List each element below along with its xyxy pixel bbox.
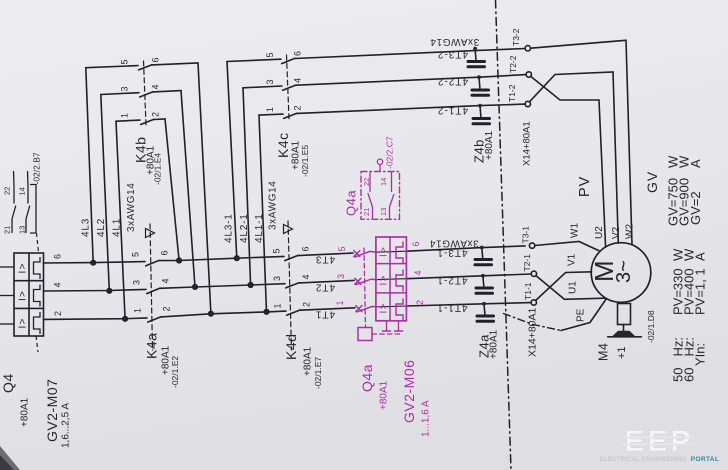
svg-text:4L1-1: 4L1-1 (254, 213, 265, 243)
svg-text:60: 60 (682, 368, 697, 382)
wire bus 4L2 (middle phase) (44, 289, 147, 291)
svg-text:5: 5 (130, 252, 140, 257)
svg-text:6: 6 (52, 254, 62, 259)
svg-text:+80A1: +80A1 (303, 346, 314, 376)
svg-text:3~: 3~ (613, 260, 635, 283)
svg-text:4: 4 (413, 270, 423, 275)
breaker Q4a thermal elements (396, 242, 403, 263)
svg-text:GV=2: GV=2 (688, 191, 703, 225)
wire tap bus1 to K4b row1 (86, 68, 93, 263)
svg-text:Q4a: Q4a (359, 364, 375, 392)
svg-text:6: 6 (292, 51, 302, 56)
svg-text:3: 3 (265, 79, 275, 84)
svg-text:-02/2.C7: -02/2.C7 (385, 136, 395, 169)
svg-text:4: 4 (292, 78, 302, 83)
svg-text:4T1-1: 4T1-1 (436, 302, 467, 313)
svg-text:1,6...2,5 A: 1,6...2,5 A (61, 403, 72, 448)
svg-text:4T2-2: 4T2-2 (437, 76, 468, 87)
svg-text:22: 22 (3, 187, 12, 195)
svg-text:K4c: K4c (275, 132, 291, 158)
svg-text:-02/1.D8: -02/1.D8 (646, 310, 656, 343)
svg-text:U2: U2 (594, 226, 605, 239)
contactor K4b contact slants (139, 65, 152, 70)
wire K4c row 3-4 / 4T2-2 (243, 86, 282, 88)
wire tap bus3 to K4b row3 (116, 121, 125, 319)
aux bracket Q4 (30, 185, 36, 234)
svg-text:T2-1: T2-1 (522, 254, 532, 272)
svg-text:I>: I> (18, 262, 29, 273)
svg-text:+80A1: +80A1 (20, 397, 31, 427)
terminal circle X14 T2-2 (526, 72, 531, 77)
svg-text:W1: W1 (570, 223, 581, 238)
wire K4c row 1-2 / 4T1-2 (259, 114, 283, 115)
wire T1-1 to motor V1 (crossover) (536, 272, 592, 301)
svg-text:6: 6 (150, 57, 160, 62)
wire K4b row3 down to bus1 (phase swap) (165, 119, 179, 261)
svg-text:6: 6 (300, 246, 310, 251)
svg-text:V2: V2 (611, 226, 622, 239)
svg-text:2: 2 (53, 311, 63, 316)
wire PE dash-dot rail (504, 314, 562, 331)
svg-text:GV2-M07: GV2-M07 (44, 379, 60, 442)
svg-text:-02/1.E2: -02/1.E2 (170, 356, 180, 388)
svg-text:T1-2: T1-2 (507, 84, 517, 102)
bottom-left corner shadow (0, 446, 20, 470)
svg-text:M4: M4 (597, 343, 611, 361)
wire K4b row2 down to bus2 (181, 91, 195, 287)
aux contact Q4a 13-14 (389, 207, 391, 219)
wire tap bus2 to K4b row2 (101, 95, 110, 291)
svg-text:4T2-1: 4T2-1 (436, 275, 467, 286)
wire K4b row 1-2 (116, 120, 140, 121)
svg-text:GV2-M06: GV2-M06 (401, 360, 417, 423)
svg-text:5: 5 (337, 246, 347, 251)
svg-text:4T1-2: 4T1-2 (437, 105, 468, 116)
terminal Z4b pole 4T1-2 (479, 106, 482, 117)
svg-text:U1: U1 (568, 281, 579, 294)
svg-text:PV: PV (577, 176, 593, 197)
wire K4b row1 down to bus3 (phase swap) (198, 63, 211, 314)
svg-text:I>: I> (18, 290, 29, 301)
wire T3-1 to motor W1 (535, 242, 599, 251)
svg-text:3xAWG14: 3xAWG14 (268, 181, 279, 230)
svg-text:+80A1: +80A1 (379, 380, 390, 410)
wire T1-2 to motor V2 (crossover) (530, 72, 619, 243)
svg-text:3: 3 (131, 280, 141, 285)
svg-text:4T3-1: 4T3-1 (436, 247, 467, 258)
svg-text:3: 3 (119, 86, 129, 91)
svg-text:13: 13 (18, 226, 27, 234)
svg-text:X14+80A1: X14+80A1 (526, 308, 538, 357)
svg-text:1...1,6 A: 1...1,6 A (421, 400, 432, 437)
contactor K4c contact slants (282, 58, 295, 63)
svg-text:4: 4 (301, 274, 311, 279)
motor M4 circle (591, 243, 651, 303)
wire T2-1 to motor U1 (crossover) (536, 276, 605, 300)
svg-text:3xAWG14: 3xAWG14 (430, 36, 479, 47)
svg-text:Q4: Q4 (0, 373, 16, 393)
svg-text:GV: GV (644, 171, 660, 193)
svg-text:K4d: K4d (283, 334, 299, 360)
svg-text:2: 2 (292, 105, 302, 110)
svg-text:T3-2: T3-2 (511, 28, 521, 46)
svg-text:-02/2.B7: -02/2.B7 (32, 152, 42, 184)
svg-text:4L3: 4L3 (81, 218, 92, 237)
aux contact Q4a 21-22 (372, 207, 374, 219)
svg-text:Q4a: Q4a (344, 190, 359, 216)
aux contact Q4 21-22 (11, 219, 13, 233)
svg-text:W2: W2 (625, 224, 636, 239)
svg-text:14: 14 (379, 178, 388, 186)
svg-text:3: 3 (272, 276, 282, 281)
breaker Q4 mechanism link down (36, 336, 38, 352)
svg-text:21: 21 (362, 208, 371, 216)
svg-text:5: 5 (271, 248, 281, 253)
linkage K4c (287, 55, 290, 119)
breaker Q4 body (14, 253, 44, 336)
junction dots K4c taps (235, 256, 240, 261)
svg-text:4T3-2: 4T3-2 (437, 49, 468, 60)
svg-text:2: 2 (415, 300, 425, 305)
svg-text:PE: PE (576, 308, 587, 322)
EEP watermark logo (600, 425, 720, 463)
svg-text:3: 3 (336, 274, 346, 279)
svg-text:4L2-1: 4L2-1 (239, 213, 250, 243)
breaker Q4a contact slant pole 5-6 (355, 251, 376, 257)
motor brake stem (623, 325, 625, 332)
arrow on K4d linkage (284, 225, 293, 234)
wire T3-2 to motor W2 (531, 40, 633, 244)
contactor K4d contact slants (285, 255, 298, 260)
terminal circle X14 T1-1 (531, 300, 536, 305)
svg-text:3xAWG14: 3xAWG14 (429, 238, 478, 249)
svg-text:+80A1: +80A1 (489, 329, 500, 359)
svg-text:V1: V1 (567, 253, 578, 266)
linkage K4b (144, 61, 147, 125)
svg-text:ELECTRICAL ENGINEERING: ELECTRICAL ENGINEERING (600, 456, 687, 463)
breaker Q4a mechanism box (358, 328, 372, 341)
terminal circle X14 T3-2 (525, 46, 530, 51)
svg-text:-02/1.E5: -02/1.E5 (300, 145, 310, 177)
wire tap bus1 to K4c row1 (227, 62, 237, 259)
wire K4c row 5-6 / 4T3-2 (227, 59, 281, 61)
svg-text:1: 1 (272, 303, 282, 308)
wire PE to motor (561, 299, 607, 331)
wire K4b row 3-4 (101, 93, 139, 95)
svg-text:6: 6 (411, 241, 421, 246)
terminal Z4a pole 4T1-1 (483, 304, 486, 315)
aux box Q4a dash-dot frame (361, 172, 400, 220)
svg-text:+1: +1 (616, 346, 628, 359)
svg-text:21: 21 (3, 226, 12, 234)
svg-text:3xAWG14: 3xAWG14 (126, 183, 137, 232)
svg-text:1: 1 (132, 308, 142, 313)
svg-text:-02/1.E7: -02/1.E7 (313, 357, 323, 389)
linkage Q4a dashed (364, 248, 366, 328)
terminal Z4a pole 4T3-1 (481, 248, 484, 259)
terminal circle X14 T1-2 (525, 101, 530, 106)
svg-text:-02/1.E4: -02/1.E4 (153, 153, 163, 185)
junction dots K4b outputs (177, 258, 182, 263)
svg-text:YIn:: YIn: (693, 343, 708, 366)
breaker Q4a contact slant pole 3-4 (356, 279, 377, 284)
contactor K4a contact slants (146, 260, 159, 266)
svg-text:I>: I> (379, 246, 390, 257)
svg-text:5: 5 (119, 59, 129, 64)
svg-text:A: A (688, 159, 703, 168)
breaker Q4 thermal elements (34, 257, 41, 279)
svg-text:5: 5 (265, 52, 275, 57)
linkage K4d (288, 221, 292, 350)
aux contact Q4 13-14 (25, 219, 27, 233)
boundary dash-dot line (496, 0, 512, 470)
terminal Z4a pole 4T2-1 (482, 276, 485, 287)
svg-text:14: 14 (18, 187, 27, 195)
svg-text:PV=1, 1: PV=1, 1 (693, 268, 708, 315)
motor brake pad (608, 336, 642, 338)
svg-text:4T1: 4T1 (315, 309, 335, 320)
svg-text:22: 22 (362, 178, 371, 186)
svg-text:4T2: 4T2 (315, 282, 335, 293)
svg-text:13: 13 (379, 208, 388, 216)
svg-text:I>: I> (379, 274, 390, 285)
motor brake body (618, 304, 631, 325)
svg-text:4L2: 4L2 (96, 218, 107, 237)
terminal Z4b pole 4T2-2 (478, 77, 481, 88)
svg-text:1: 1 (119, 113, 129, 118)
terminal Z4b pole 4T3-2 (474, 49, 477, 60)
svg-text:X14+80A1: X14+80A1 (521, 121, 532, 166)
svg-text:1: 1 (335, 300, 345, 305)
svg-text:2: 2 (161, 306, 171, 311)
wire T2-2 to motor U2 (crossover) (531, 76, 606, 247)
svg-text:2: 2 (301, 302, 311, 307)
wire K4b row 5-6 (upper) (86, 66, 138, 68)
svg-text:I>: I> (18, 317, 29, 328)
svg-text:T3-1: T3-1 (521, 226, 531, 244)
terminal circle X14 T3-1 (529, 243, 534, 248)
wire tap bus3 to K4c row3 (259, 115, 267, 312)
junction dots bus taps before K4a (91, 260, 96, 265)
arrow on K4a linkage (146, 229, 155, 238)
breaker Q4a body (376, 237, 407, 321)
breaker Q4 input stubs (0, 266, 14, 268)
terminal circle X14 T2-1 (531, 271, 536, 276)
wire bus 4L3 (top phase) (44, 262, 146, 263)
breaker Q4a contact slant pole 1-2 (357, 307, 378, 312)
linkage K4a (dashed with arrow) (150, 224, 153, 350)
wire bus 4L1 (bottom phase) (44, 318, 148, 320)
svg-text:PORTAL: PORTAL (691, 456, 719, 463)
svg-text:T2-2: T2-2 (508, 55, 518, 73)
svg-text:+80A1: +80A1 (484, 130, 495, 160)
svg-text:2: 2 (150, 112, 160, 117)
svg-text:T1-1: T1-1 (523, 282, 533, 300)
svg-text:K4a: K4a (144, 333, 160, 359)
breaker Q4a reset stubs (386, 321, 388, 331)
svg-text:4: 4 (52, 282, 62, 287)
svg-text:4: 4 (150, 84, 160, 89)
aux Q4a wire up with ref circle (379, 165, 381, 172)
svg-text:1: 1 (265, 107, 275, 112)
svg-text:EEP: EEP (624, 425, 693, 458)
svg-text:I>: I> (379, 302, 390, 313)
svg-text:4L1: 4L1 (112, 218, 123, 237)
wire tap bus2 to K4c row2 (243, 88, 251, 285)
svg-text:6: 6 (159, 250, 169, 255)
svg-text:4: 4 (160, 278, 170, 283)
svg-text:4L3-1: 4L3-1 (224, 213, 235, 243)
svg-text:A: A (693, 252, 708, 261)
svg-text:4T3: 4T3 (315, 254, 335, 265)
